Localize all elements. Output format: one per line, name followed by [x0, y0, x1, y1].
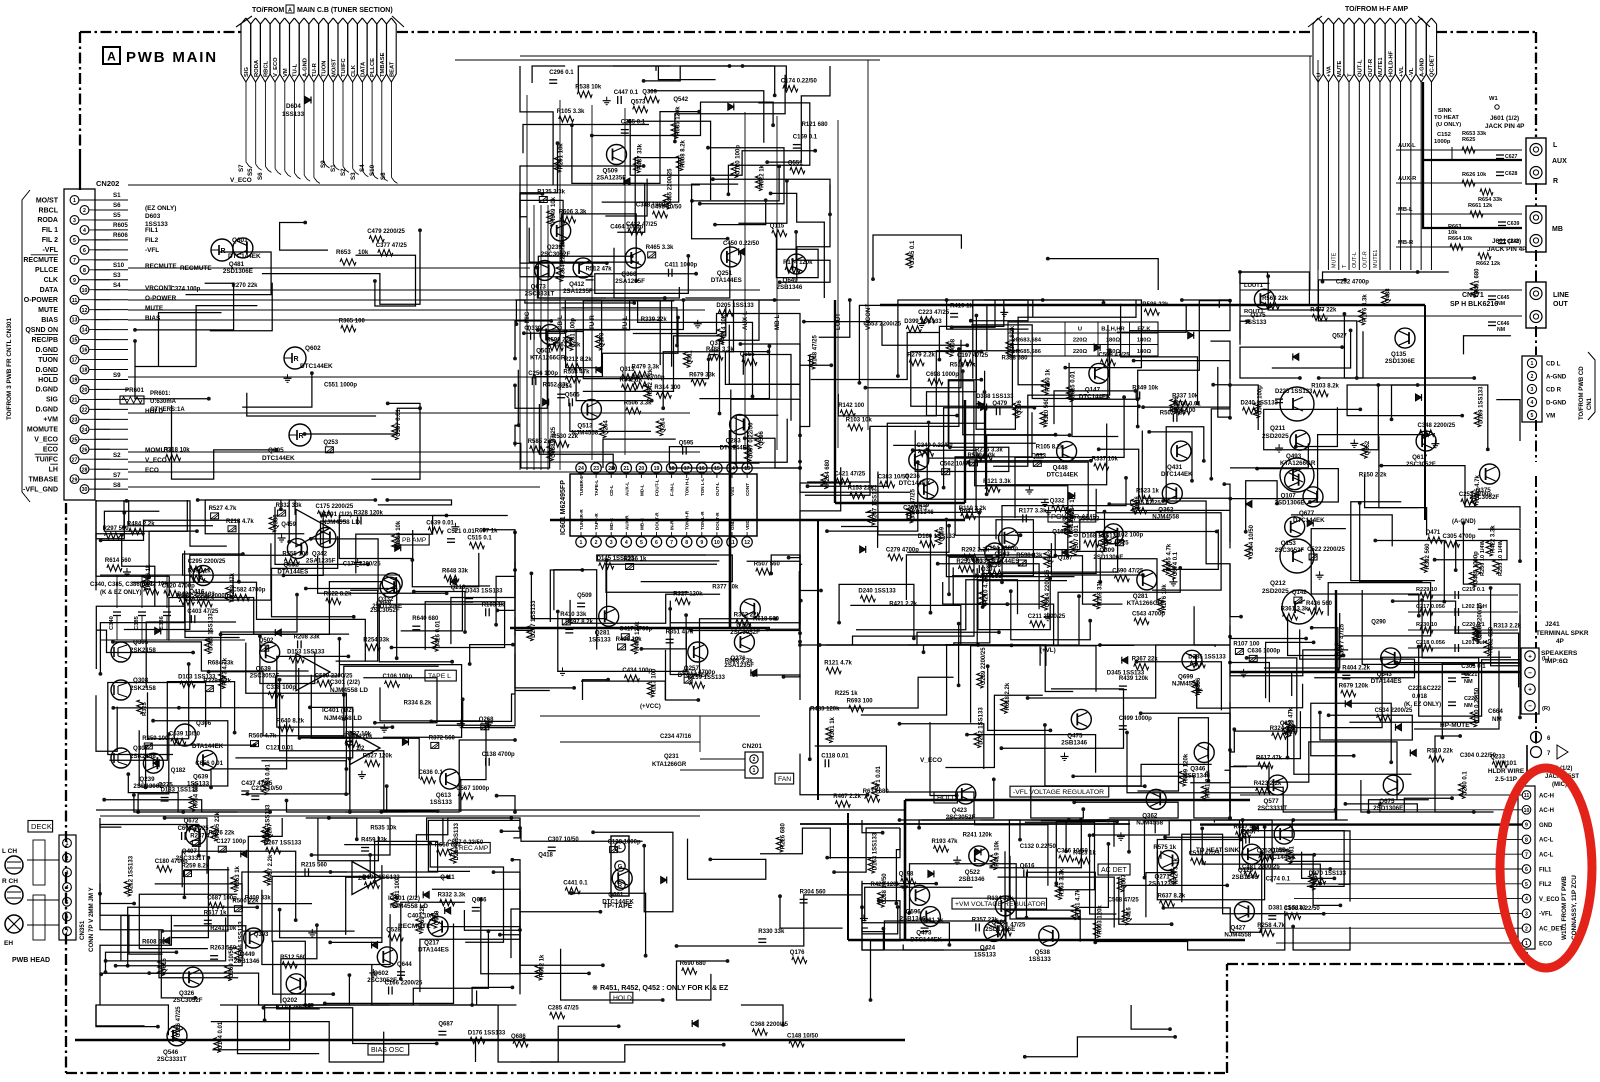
svg-text:A: A	[288, 8, 292, 14]
svg-text:R484 2.2k: R484 2.2k	[127, 522, 155, 528]
svg-text:C441 0.1: C441 0.1	[563, 881, 588, 887]
svg-text:CN202: CN202	[96, 179, 119, 188]
svg-text:2SD1306E: 2SD1306E	[1385, 358, 1415, 365]
svg-text:Q297: Q297	[267, 823, 273, 838]
svg-text:C338 100p: C338 100p	[266, 685, 296, 691]
svg-text:Q147: Q147	[1085, 386, 1101, 393]
svg-text:6: 6	[1525, 867, 1528, 873]
svg-text:C374 100p: C374 100p	[171, 287, 201, 293]
svg-text:DTC144EK: DTC144EK	[720, 445, 752, 452]
svg-text:DTC144EK: DTC144EK	[1079, 393, 1111, 400]
svg-text:R365 100: R365 100	[339, 319, 366, 325]
svg-text:7: 7	[73, 258, 76, 264]
svg-text:(+VL): (+VL)	[1040, 647, 1056, 654]
svg-text:180Ω: 180Ω	[1137, 349, 1152, 355]
svg-text:CN1: CN1	[1587, 397, 1593, 410]
svg-text:Q424: Q424	[980, 944, 996, 951]
svg-text:OUT: OUT	[1553, 301, 1569, 308]
svg-text:D160 1SS133: D160 1SS133	[918, 534, 956, 540]
svg-text:C348 2200/25: C348 2200/25	[1418, 423, 1456, 429]
svg-text:2.5-11P: 2.5-11P	[1495, 776, 1518, 783]
svg-text:R212 8.2k: R212 8.2k	[564, 357, 592, 363]
svg-text:R367 22k: R367 22k	[1132, 657, 1159, 663]
svg-text:MB-R: MB-R	[1398, 240, 1414, 246]
svg-text:AUX: AUX	[1552, 158, 1567, 165]
svg-text:Q652: Q652	[1365, 440, 1371, 455]
svg-text:Q135: Q135	[1391, 351, 1407, 358]
svg-text:12: 12	[744, 540, 750, 546]
svg-text:C118 0.01: C118 0.01	[821, 753, 849, 759]
svg-text:R522 8.2k: R522 8.2k	[324, 591, 352, 597]
svg-text:6: 6	[66, 915, 69, 921]
svg-text:W1: W1	[1489, 96, 1498, 102]
svg-text:MAIN C.B (TUNER SECTION): MAIN C.B (TUNER SECTION)	[297, 7, 393, 14]
svg-text:Q276: Q276	[730, 655, 746, 662]
svg-text:R225 4.7k: R225 4.7k	[1475, 475, 1481, 503]
svg-text:220Ω: 220Ω	[1073, 349, 1088, 355]
svg-text:2SC3052F: 2SC3052F	[367, 977, 397, 984]
svg-text:C154 0.01: C154 0.01	[218, 1021, 224, 1049]
svg-text:R176 3.3k: R176 3.3k	[1363, 294, 1369, 322]
svg-text:MB: MB	[1552, 226, 1563, 233]
svg-text:Q527: Q527	[1332, 334, 1347, 340]
svg-text:1SS133: 1SS133	[974, 951, 997, 958]
svg-text:R332 33k: R332 33k	[276, 503, 303, 509]
svg-text:C234 1000p: C234 1000p	[195, 594, 228, 600]
svg-text:SIG: SIG	[46, 397, 59, 404]
svg-text:2SB1346: 2SB1346	[777, 284, 803, 291]
svg-text:R563 22k: R563 22k	[1262, 296, 1289, 302]
svg-text:4: 4	[1531, 400, 1534, 406]
svg-text:TUNER-L: TUNER-L	[579, 476, 584, 496]
svg-text:Q346: Q346	[1190, 766, 1206, 773]
svg-text:C435 1000p: C435 1000p	[1474, 551, 1480, 584]
svg-text:C174 2200/25: C174 2200/25	[343, 562, 381, 568]
svg-text:30: 30	[82, 487, 88, 493]
svg-text:TO/FROM: TO/FROM	[252, 7, 284, 14]
svg-text:R362 22k: R362 22k	[734, 613, 761, 619]
svg-text:R419 10k: R419 10k	[994, 840, 1000, 867]
svg-text:R105 8.2k: R105 8.2k	[1036, 444, 1064, 450]
svg-text:Q538: Q538	[1035, 949, 1051, 956]
svg-text:AC-H: AC-H	[1539, 808, 1554, 814]
svg-text:Q212: Q212	[1270, 580, 1286, 587]
svg-text:R477 22k: R477 22k	[1310, 307, 1337, 313]
svg-text:Q493: Q493	[1286, 453, 1302, 460]
svg-text:GND: GND	[1539, 823, 1553, 829]
svg-text:2SK2158: 2SK2158	[130, 685, 156, 692]
svg-text:DTA144ES: DTA144ES	[1371, 678, 1402, 685]
svg-text:S2: S2	[113, 452, 121, 459]
svg-text:C614 2200/25: C614 2200/25	[1045, 569, 1051, 607]
svg-text:R353 1k: R353 1k	[235, 865, 241, 888]
svg-text:MUTE1: MUTE1	[1378, 57, 1384, 77]
svg-text:C674 0.1: C674 0.1	[1173, 551, 1179, 576]
svg-text:Q115: Q115	[770, 223, 785, 229]
svg-text:EH: EH	[4, 940, 13, 947]
svg-text:R625: R625	[1462, 137, 1475, 143]
svg-text:S5: S5	[113, 212, 121, 219]
svg-text:D315 1SS133: D315 1SS133	[209, 613, 215, 651]
svg-text:Q360: Q360	[621, 271, 637, 278]
svg-text:14: 14	[82, 328, 88, 334]
svg-text:D212 1SS133: D212 1SS133	[129, 855, 135, 893]
svg-text:1000p: 1000p	[1434, 139, 1451, 145]
svg-text:BEAT: BEAT	[390, 61, 396, 77]
svg-text:TO HEAT: TO HEAT	[1434, 115, 1459, 121]
svg-text:22: 22	[82, 407, 88, 413]
svg-text:(EZ ONLY): (EZ ONLY)	[145, 205, 176, 212]
svg-text:R163 3.3k: R163 3.3k	[1059, 868, 1065, 896]
svg-text:L: L	[618, 845, 622, 851]
svg-text:R679 120k: R679 120k	[1339, 683, 1369, 689]
svg-text:Q233: Q233	[1490, 755, 1505, 761]
svg-text:Q542: Q542	[673, 97, 688, 103]
svg-text:C256 100p: C256 100p	[528, 371, 558, 377]
svg-text:PR601:: PR601:	[150, 391, 170, 397]
svg-text:Q596: Q596	[906, 908, 922, 915]
svg-text:16: 16	[82, 348, 88, 354]
svg-text:2SC3331T: 2SC3331T	[176, 855, 206, 862]
svg-text:C239 2200/25: C239 2200/25	[981, 647, 987, 685]
svg-text:D163 1SS133: D163 1SS133	[872, 832, 878, 870]
svg-text:R259 100: R259 100	[142, 736, 169, 742]
svg-text:R566 4.7k: R566 4.7k	[249, 734, 277, 740]
svg-text:R640 680: R640 680	[412, 616, 439, 622]
svg-text:2: 2	[83, 208, 86, 214]
svg-text:Q449: Q449	[240, 951, 256, 958]
svg-text:7: 7	[66, 929, 69, 935]
svg-text:C687 100p: C687 100p	[207, 896, 237, 902]
svg-text:Q613: Q613	[436, 792, 452, 799]
svg-text:R684 33k: R684 33k	[208, 661, 235, 667]
svg-text:C223 47/25: C223 47/25	[918, 310, 950, 316]
svg-text:TO/FROM H-F AMP: TO/FROM H-F AMP	[1345, 6, 1408, 13]
svg-text:R110 2.2k: R110 2.2k	[959, 506, 987, 512]
svg-text:CONN 7P V 2MM JM Y: CONN 7P V 2MM JM Y	[88, 886, 95, 952]
svg-text:Q281: Q281	[595, 629, 611, 636]
svg-text:R605: R605	[113, 222, 128, 229]
svg-text:R575 1k: R575 1k	[1153, 845, 1176, 851]
svg-text:R512 47k: R512 47k	[586, 266, 613, 272]
svg-text:R121 4.7k: R121 4.7k	[824, 661, 852, 667]
svg-text:U: U	[1316, 73, 1322, 77]
svg-text:D.GND: D.GND	[35, 347, 58, 354]
svg-text:+: +	[1528, 687, 1532, 694]
svg-text:HOLD: HOLD	[613, 995, 632, 1002]
svg-text:RECMUTE: RECMUTE	[23, 257, 58, 264]
svg-text:C231 100p: C231 100p	[571, 318, 577, 348]
svg-text:C639 0.01: C639 0.01	[426, 520, 454, 526]
svg-text:C450 0.22/50: C450 0.22/50	[723, 241, 760, 247]
svg-text:R113 100: R113 100	[652, 668, 658, 694]
svg-text:24: 24	[578, 466, 584, 472]
svg-text:TMBASE: TMBASE	[380, 52, 386, 77]
svg-text:C106 100p: C106 100p	[383, 674, 413, 680]
svg-text:R372 10k: R372 10k	[142, 581, 169, 587]
svg-text:TAPE-L: TAPE-L	[594, 480, 599, 496]
svg-text:Q298: Q298	[899, 872, 914, 878]
svg-text:C492 47/25: C492 47/25	[1098, 540, 1130, 546]
svg-text:4: 4	[625, 540, 628, 546]
svg-text:R506 3.3k: R506 3.3k	[624, 401, 652, 407]
svg-text:R653: R653	[336, 249, 351, 256]
svg-text:Q666: Q666	[472, 898, 487, 904]
svg-text:C377 47/25: C377 47/25	[376, 243, 408, 249]
svg-text:Q615: Q615	[162, 958, 168, 973]
svg-text:(K & EZ ONLY): (K & EZ ONLY)	[100, 590, 141, 596]
svg-text:MUTE: MUTE	[38, 307, 58, 314]
svg-text:R579 3.3k: R579 3.3k	[968, 453, 996, 459]
svg-text:R431 100: R431 100	[395, 878, 401, 905]
svg-text:MB-L: MB-L	[1398, 207, 1413, 213]
svg-text:R527 120k: R527 120k	[363, 753, 393, 759]
svg-text:-VFL: -VFL	[42, 247, 58, 254]
svg-text:R465 3.3k: R465 3.3k	[646, 245, 674, 251]
svg-text:R654 560: R654 560	[193, 782, 199, 809]
svg-text:4: 4	[83, 228, 86, 234]
svg-text:6: 6	[83, 248, 86, 254]
svg-text:180Ω: 180Ω	[1137, 338, 1152, 344]
svg-text:R622 1k: R622 1k	[760, 164, 766, 187]
svg-text:2SA1235F: 2SA1235F	[615, 278, 645, 285]
svg-text:Q170: Q170	[600, 332, 606, 347]
svg-text:BIAS OSC: BIAS OSC	[371, 1047, 404, 1054]
svg-text:KTA1266GR: KTA1266GR	[530, 355, 566, 362]
svg-text:12: 12	[82, 308, 88, 314]
svg-text:2SB1346: 2SB1346	[908, 509, 934, 516]
svg-text:0.018: 0.018	[1412, 694, 1428, 700]
svg-text:R103 10k: R103 10k	[846, 417, 873, 423]
svg-text:Q649: Q649	[783, 277, 799, 284]
svg-text:R483 120k: R483 120k	[810, 707, 840, 713]
svg-text:R535 10k: R535 10k	[370, 825, 397, 831]
svg-text:Q271: Q271	[1155, 874, 1171, 881]
svg-text:R150 2.2k: R150 2.2k	[1359, 472, 1387, 478]
svg-text:R510 22k: R510 22k	[1427, 749, 1454, 755]
svg-text:C521 0.01: C521 0.01	[447, 529, 475, 535]
svg-text:D370 1SS133: D370 1SS133	[1309, 871, 1347, 877]
svg-text:TUON: TUON	[38, 357, 58, 364]
svg-text:C169 0.1: C169 0.1	[793, 135, 818, 141]
svg-text:C499 1000p: C499 1000p	[1119, 716, 1152, 722]
svg-text:R507 560: R507 560	[754, 562, 781, 568]
svg-text:D176 1SS133: D176 1SS133	[468, 1030, 506, 1036]
svg-text:2: 2	[1525, 926, 1528, 932]
svg-text:C417 4700p: C417 4700p	[619, 627, 652, 633]
svg-text:C465 2200/25: C465 2200/25	[668, 168, 674, 206]
svg-text:Q142: Q142	[1292, 590, 1307, 596]
svg-text:TAPE L: TAPE L	[428, 673, 451, 680]
svg-text:C124 0.01: C124 0.01	[266, 763, 272, 791]
svg-text:RECMUTE: RECMUTE	[145, 263, 177, 270]
svg-text:FIL2: FIL2	[1539, 882, 1552, 888]
svg-text:D345 1SS133: D345 1SS133	[1107, 671, 1145, 677]
svg-text:10: 10	[714, 540, 720, 546]
svg-text:220Ω: 220Ω	[1073, 338, 1088, 344]
svg-text:NJM4558 LD: NJM4558 LD	[322, 519, 360, 526]
svg-text:Q253: Q253	[323, 440, 338, 446]
svg-text:PWB MAIN: PWB MAIN	[126, 49, 218, 66]
svg-text:R436 560: R436 560	[1306, 601, 1333, 607]
svg-text:R635 120k: R635 120k	[675, 106, 681, 136]
svg-text:A-GND: A-GND	[1419, 58, 1425, 77]
svg-text:C515 0.1: C515 0.1	[467, 536, 492, 542]
svg-text:R259 8.2k: R259 8.2k	[182, 864, 210, 870]
svg-text:C639: C639	[1507, 221, 1520, 227]
svg-text:19: 19	[654, 466, 660, 472]
svg-text:R497 8.2k: R497 8.2k	[565, 619, 593, 625]
svg-text:2SA1235F: 2SA1235F	[306, 558, 336, 565]
svg-text:NM: NM	[1497, 301, 1505, 307]
svg-text:O-POWER: O-POWER	[24, 297, 58, 304]
svg-text:Q231: Q231	[664, 754, 679, 760]
svg-text:4: 4	[66, 885, 69, 891]
svg-text:Q573: Q573	[631, 99, 646, 105]
svg-text:Q339: Q339	[527, 326, 542, 332]
svg-text:Q419: Q419	[914, 502, 930, 509]
svg-text:MUTE: MUTE	[1337, 60, 1343, 77]
svg-text:AUX-L: AUX-L	[624, 482, 629, 496]
svg-text:Q251: Q251	[717, 270, 733, 277]
svg-text:MUTE: MUTE	[145, 305, 164, 312]
svg-text:+VM: +VM	[43, 417, 58, 424]
svg-text:2SD1306E: 2SD1306E	[223, 268, 253, 275]
svg-text:R496 10k: R496 10k	[616, 637, 643, 643]
svg-text:ECO: ECO	[145, 467, 159, 474]
svg-text:D183 1SS133: D183 1SS133	[161, 788, 199, 794]
svg-text:R527 4.7k: R527 4.7k	[209, 506, 237, 512]
svg-text:1SS133: 1SS133	[589, 636, 612, 643]
svg-text:R439 120k: R439 120k	[1119, 676, 1149, 682]
svg-text:3: 3	[1525, 912, 1528, 918]
svg-text:R511 47k: R511 47k	[950, 363, 976, 369]
svg-text:C232 4700p: C232 4700p	[1336, 280, 1369, 286]
svg-text:C345 0.1: C345 0.1	[910, 240, 916, 265]
svg-text:F-IN-L: F-IN-L	[670, 483, 675, 496]
svg-text:C348 1000p: C348 1000p	[636, 203, 669, 209]
svg-text:C411 1000p: C411 1000p	[665, 263, 698, 269]
svg-text:DATA: DATA	[40, 287, 58, 294]
svg-text:C582 4700p: C582 4700p	[232, 588, 265, 594]
svg-text:R225 1k: R225 1k	[835, 691, 858, 697]
svg-text:C551 1000p: C551 1000p	[324, 383, 357, 389]
svg-text:Q481: Q481	[229, 261, 245, 268]
svg-text:R666 10k: R666 10k	[396, 520, 402, 547]
svg-text:IN-R: IN-R	[670, 520, 675, 530]
svg-text:Q309: Q309	[642, 90, 657, 96]
svg-text:BIAS: BIAS	[41, 317, 58, 324]
svg-text:R632 1k: R632 1k	[540, 954, 546, 977]
svg-text:C132 0.22/50: C132 0.22/50	[1020, 844, 1057, 850]
svg-text:DTA144ES: DTA144ES	[277, 569, 308, 576]
svg-text:24: 24	[82, 427, 88, 433]
svg-text:2SC3331T: 2SC3331T	[525, 290, 555, 297]
svg-text:FIL 2: FIL 2	[42, 237, 58, 244]
svg-text:R142 100: R142 100	[838, 403, 865, 409]
svg-text:3: 3	[66, 871, 69, 877]
svg-text:C567 1000p: C567 1000p	[456, 786, 489, 792]
svg-text:2SC3052F: 2SC3052F	[173, 997, 203, 1004]
svg-text:C218 0.056: C218 0.056	[1416, 640, 1445, 646]
svg-text:2SB1346: 2SB1346	[900, 915, 926, 922]
svg-text:R459 33k: R459 33k	[361, 838, 388, 844]
svg-text:C615 0.01: C615 0.01	[1071, 370, 1077, 398]
svg-text:C559 100p: C559 100p	[1257, 385, 1263, 415]
svg-text:NM: NM	[1497, 327, 1505, 333]
svg-text:AUX-R: AUX-R	[1398, 176, 1417, 182]
svg-text:DTC144EK: DTC144EK	[300, 363, 333, 370]
svg-text:8: 8	[685, 540, 688, 546]
svg-text:R512 560: R512 560	[280, 955, 307, 961]
svg-text:T: T	[1347, 73, 1353, 77]
svg-text:NM: NM	[1464, 679, 1473, 685]
svg-text:R320 560: R320 560	[1044, 397, 1050, 424]
svg-text:9: 9	[1525, 823, 1528, 829]
svg-text:DTA144ES: DTA144ES	[711, 277, 742, 284]
svg-text:R127 8.2k: R127 8.2k	[1010, 325, 1016, 353]
svg-text:TMBASE: TMBASE	[28, 476, 58, 483]
svg-text:REC/PB: REC/PB	[32, 337, 58, 344]
svg-text:C296 0.1: C296 0.1	[549, 70, 574, 76]
svg-text:R349 10k: R349 10k	[1132, 385, 1159, 391]
svg-text:R107 100: R107 100	[1233, 642, 1260, 648]
svg-text:R105 3.3k: R105 3.3k	[557, 109, 585, 115]
svg-text:C344 10/50: C344 10/50	[1249, 524, 1255, 556]
svg-text:Q214: Q214	[661, 417, 667, 432]
svg-text:Q551: Q551	[788, 161, 803, 167]
svg-text:Q602: Q602	[305, 345, 321, 352]
svg-text:HP-MUTE: HP-MUTE	[1440, 722, 1470, 729]
svg-text:Q687: Q687	[438, 1021, 453, 1027]
svg-text:NJM4558: NJM4558	[571, 430, 598, 437]
svg-text:TUON: TUON	[322, 61, 328, 77]
svg-text:R455 4.7k: R455 4.7k	[1167, 543, 1173, 571]
svg-text:R607 1k: R607 1k	[475, 529, 498, 535]
svg-text:OUT-L: OUT-L	[1352, 252, 1358, 268]
svg-text:SP H BLK6216: SP H BLK6216	[1450, 301, 1498, 308]
svg-text:C120 100p: C120 100p	[735, 145, 741, 175]
svg-text:C126 47/25: C126 47/25	[176, 1006, 182, 1038]
svg-text:−: −	[1528, 670, 1532, 677]
svg-text:D.GND: D.GND	[35, 387, 58, 394]
svg-text:R609 120k: R609 120k	[1183, 753, 1189, 783]
svg-text:R404 2.2k: R404 2.2k	[1342, 665, 1370, 671]
svg-text:C175 2200/25: C175 2200/25	[316, 504, 354, 510]
svg-text:R653 33k: R653 33k	[1462, 131, 1487, 137]
svg-text:R372 560: R372 560	[429, 735, 456, 741]
svg-text:KTA1266GR: KTA1266GR	[1280, 460, 1316, 467]
svg-text:Q543: Q543	[1377, 671, 1393, 678]
svg-text:-VFL: -VFL	[1539, 912, 1553, 918]
svg-text:R337 10k: R337 10k	[1092, 457, 1119, 463]
svg-text:RODA: RODA	[254, 59, 260, 77]
svg-text:R241 10k: R241 10k	[210, 926, 237, 932]
svg-text:D.GND: D.GND	[35, 407, 58, 414]
svg-text:R334 8.2k: R334 8.2k	[404, 701, 432, 707]
svg-text:MOMUTE: MOMUTE	[27, 427, 58, 434]
svg-text:Q509: Q509	[603, 168, 619, 175]
svg-text:DECK: DECK	[31, 822, 52, 831]
svg-text:TO/FROM 3 PWB FR CNTL CN301: TO/FROM 3 PWB FR CNTL CN301	[6, 318, 13, 420]
svg-text:2SD1306E: 2SD1306E	[372, 603, 402, 610]
svg-text:R103 1k: R103 1k	[482, 602, 505, 608]
svg-text:R324 33k: R324 33k	[1270, 726, 1297, 732]
svg-text:Q686: Q686	[511, 1034, 526, 1040]
svg-text:29: 29	[72, 477, 78, 483]
svg-text:C508 47/25: C508 47/25	[1099, 353, 1131, 359]
svg-text:LINE: LINE	[1553, 292, 1569, 299]
